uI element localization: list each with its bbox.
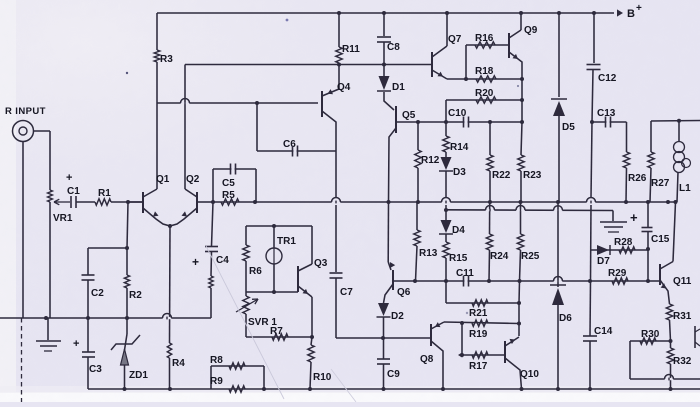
svg-text:C6: C6 <box>283 139 296 150</box>
svg-text:D3: D3 <box>453 167 466 178</box>
svg-text:Q8: Q8 <box>420 354 434 365</box>
svg-text:C12: C12 <box>598 73 617 84</box>
svg-text:R11: R11 <box>342 44 360 55</box>
svg-text:Q7: Q7 <box>448 34 462 45</box>
svg-text:C13: C13 <box>597 108 616 119</box>
svg-text:C1: C1 <box>67 186 80 197</box>
svg-text:C9: C9 <box>387 369 400 380</box>
svg-text:R4: R4 <box>172 358 185 369</box>
svg-text:Q3: Q3 <box>314 258 328 269</box>
svg-text:+: + <box>73 338 79 350</box>
svg-text:R6: R6 <box>249 266 262 277</box>
svg-text:R25: R25 <box>521 251 540 262</box>
svg-text:R20: R20 <box>475 88 494 99</box>
svg-text:B: B <box>627 8 635 20</box>
svg-text:C8: C8 <box>387 42 400 53</box>
svg-text:R30: R30 <box>641 329 660 340</box>
svg-text:TR1: TR1 <box>277 236 296 247</box>
svg-text:Q5: Q5 <box>402 110 416 121</box>
svg-text:R24: R24 <box>490 251 509 262</box>
svg-text:R15: R15 <box>449 253 468 264</box>
svg-text:C3: C3 <box>89 364 102 375</box>
svg-text:R7: R7 <box>270 326 283 337</box>
svg-text:Q2: Q2 <box>186 174 200 185</box>
svg-text:R18: R18 <box>475 66 494 77</box>
svg-text:+: + <box>636 3 642 14</box>
svg-text:R27: R27 <box>651 178 670 189</box>
svg-text:R5: R5 <box>222 190 235 201</box>
svg-text:Q1: Q1 <box>156 174 170 185</box>
svg-text:VR1: VR1 <box>53 213 73 224</box>
svg-text:R19: R19 <box>469 329 488 340</box>
svg-text:Q4: Q4 <box>337 82 351 93</box>
svg-text:C2: C2 <box>91 288 104 299</box>
svg-text:R10: R10 <box>313 372 332 383</box>
svg-text:R13: R13 <box>419 248 438 259</box>
svg-text:C14: C14 <box>594 326 613 337</box>
svg-text:Q11: Q11 <box>673 276 692 287</box>
svg-text:R14: R14 <box>450 142 469 153</box>
svg-text:D2: D2 <box>391 311 404 322</box>
svg-text:R31: R31 <box>673 311 692 322</box>
svg-text:R16: R16 <box>475 33 494 44</box>
svg-text:R23: R23 <box>523 170 542 181</box>
svg-text:R32: R32 <box>673 356 692 367</box>
svg-text:R17: R17 <box>469 361 488 372</box>
svg-text:D4: D4 <box>452 225 465 236</box>
svg-text:R26: R26 <box>628 173 647 184</box>
svg-text:R12: R12 <box>421 155 440 166</box>
svg-text:R INPUT: R INPUT <box>5 106 46 117</box>
svg-text:R22: R22 <box>492 170 511 181</box>
svg-text:C7: C7 <box>340 287 353 298</box>
svg-text:+: + <box>66 172 72 184</box>
svg-text:R29: R29 <box>608 268 627 279</box>
svg-text:D1: D1 <box>392 82 405 93</box>
svg-text:ZD1: ZD1 <box>129 370 148 381</box>
svg-text:D7: D7 <box>597 256 610 267</box>
svg-text:Q6: Q6 <box>397 287 411 298</box>
svg-text:C11: C11 <box>456 268 474 279</box>
svg-text:R9: R9 <box>210 376 223 387</box>
svg-text:R21: R21 <box>469 308 488 319</box>
svg-text:Q10: Q10 <box>520 369 539 380</box>
svg-text:L1: L1 <box>679 183 691 194</box>
svg-text:+: + <box>630 210 638 225</box>
svg-text:R1: R1 <box>98 188 111 199</box>
svg-text:C4: C4 <box>216 255 229 266</box>
svg-text:C15: C15 <box>651 234 670 245</box>
svg-text:D6: D6 <box>559 313 572 324</box>
svg-text:R2: R2 <box>129 290 142 301</box>
svg-text:Q9: Q9 <box>524 25 538 36</box>
svg-text:R3: R3 <box>160 54 173 65</box>
svg-text:R8: R8 <box>210 355 223 366</box>
svg-text:+: + <box>192 255 199 269</box>
svg-text:D5: D5 <box>562 122 575 133</box>
svg-text:C5: C5 <box>222 178 235 189</box>
svg-text:R28: R28 <box>614 237 633 248</box>
